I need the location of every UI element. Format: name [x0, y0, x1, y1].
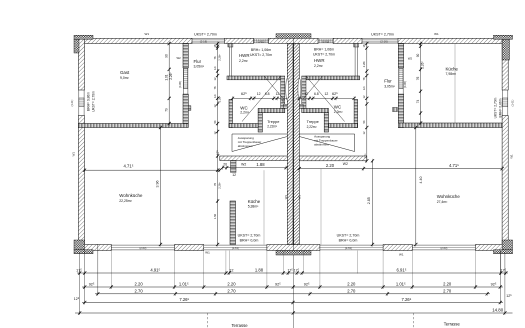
svg-text:2,2m²: 2,2m²: [240, 110, 250, 114]
svg-text:9,0m²: 9,0m²: [120, 76, 130, 80]
svg-text:2.26⁵: 2.26⁵: [421, 61, 425, 69]
svg-text:3,05m²: 3,05m²: [384, 85, 395, 89]
svg-text:76: 76: [416, 77, 420, 81]
svg-text:2.20: 2.20: [135, 281, 144, 286]
svg-text:1.50: 1.50: [213, 213, 217, 219]
svg-text:16: 16: [213, 44, 217, 47]
svg-text:4.71⁵: 4.71⁵: [449, 163, 459, 168]
svg-text:16: 16: [362, 44, 366, 47]
svg-text:17⁵: 17⁵: [287, 268, 293, 272]
svg-text:abstimmen: abstimmen: [314, 143, 329, 147]
svg-text:12: 12: [257, 92, 261, 96]
svg-text:2.26⁵: 2.26⁵: [362, 61, 366, 67]
svg-text:92⁵: 92⁵: [89, 282, 95, 286]
svg-text:1.88: 1.88: [256, 162, 265, 167]
svg-text:12⁵: 12⁵: [74, 297, 80, 301]
svg-text:2,2m²: 2,2m²: [314, 64, 324, 68]
svg-text:5,38m²: 5,38m²: [248, 204, 259, 208]
svg-text:17⁵: 17⁵: [500, 268, 506, 272]
svg-text:12: 12: [232, 173, 236, 177]
svg-text:W2: W2: [408, 57, 413, 61]
svg-text:W2: W2: [176, 56, 181, 60]
svg-text:17⁵: 17⁵: [364, 153, 368, 159]
svg-text:W1: W1: [205, 251, 210, 255]
svg-text:abstimmen: abstimmen: [238, 144, 253, 148]
svg-text:Treppe: Treppe: [267, 119, 279, 124]
svg-text:62⁵: 62⁵: [241, 92, 247, 96]
svg-text:2.20: 2.20: [326, 163, 335, 168]
svg-text:(0-86): (0-86): [403, 81, 407, 88]
svg-text:2,22m²: 2,22m²: [307, 125, 317, 129]
svg-text:92⁵: 92⁵: [275, 282, 281, 286]
svg-text:BRH= 0,0m: BRH= 0,0m: [339, 239, 358, 243]
svg-text:Wohnküche: Wohnküche: [437, 194, 461, 199]
svg-text:12⁵: 12⁵: [281, 99, 285, 103]
svg-text:76: 76: [362, 77, 366, 80]
svg-text:17⁵: 17⁵: [76, 268, 82, 272]
svg-text:1.01⁵: 1.01⁵: [179, 281, 189, 286]
svg-text:2.70: 2.70: [347, 288, 356, 293]
svg-text:(0-86): (0-86): [178, 81, 182, 88]
svg-text:2.85: 2.85: [367, 197, 371, 204]
svg-text:12: 12: [213, 104, 217, 107]
svg-text:2,22m²: 2,22m²: [267, 124, 277, 128]
svg-text:UKST= 2,70m: UKST= 2,70m: [313, 53, 335, 57]
svg-text:12: 12: [362, 131, 366, 134]
svg-text:2.26⁵: 2.26⁵: [218, 96, 222, 102]
svg-text:6.91⁵: 6.91⁵: [397, 267, 407, 272]
svg-text:3.96: 3.96: [155, 181, 159, 188]
svg-text:(2-16): (2-16): [200, 39, 208, 43]
svg-text:74: 74: [416, 100, 420, 104]
svg-text:Gast: Gast: [120, 70, 130, 75]
svg-text:6.8: 6.8: [265, 92, 270, 96]
svg-text:(2-63): (2-63): [345, 246, 352, 250]
svg-text:BRH= 0,86m: BRH= 0,86m: [86, 92, 90, 111]
svg-text:7.26⁵: 7.26⁵: [179, 297, 189, 302]
svg-text:12⁵: 12⁵: [213, 94, 217, 98]
svg-text:90: 90: [416, 54, 420, 58]
svg-text:6.8: 6.8: [314, 92, 319, 96]
svg-text:17⁵: 17⁵: [216, 149, 220, 155]
svg-text:UKST= 2,70m: UKST= 2,70m: [371, 33, 394, 37]
svg-text:Flur: Flur: [194, 59, 202, 64]
svg-text:12: 12: [325, 92, 329, 96]
svg-text:2.20: 2.20: [443, 281, 452, 286]
svg-text:HWR: HWR: [314, 58, 325, 63]
svg-text:Terrasse: Terrasse: [444, 322, 461, 327]
svg-text:90: 90: [164, 54, 168, 58]
svg-text:12: 12: [229, 268, 233, 272]
svg-text:2.20: 2.20: [227, 281, 236, 286]
svg-text:W1: W1: [145, 32, 150, 36]
svg-text:2.26⁵: 2.26⁵: [218, 182, 222, 188]
svg-text:UKST= 2,70m: UKST= 2,70m: [194, 33, 217, 37]
svg-text:1.88: 1.88: [255, 267, 264, 272]
svg-text:W2: W2: [241, 162, 246, 166]
svg-text:Treppe: Treppe: [307, 119, 319, 124]
svg-text:1.01: 1.01: [164, 74, 168, 80]
svg-text:UKST= 2,70m: UKST= 2,70m: [92, 91, 96, 112]
svg-text:W1: W1: [298, 195, 302, 200]
svg-text:W1: W1: [72, 152, 76, 157]
svg-text:22,25m²: 22,25m²: [119, 199, 132, 203]
svg-text:(2-16): (2-16): [380, 39, 388, 43]
svg-text:Küche: Küche: [248, 199, 261, 204]
svg-text:W1: W1: [399, 252, 404, 256]
svg-text:HWR: HWR: [239, 53, 250, 58]
svg-text:2.20: 2.20: [347, 281, 356, 286]
svg-text:UKST= 2,70m: UKST= 2,70m: [493, 97, 497, 118]
svg-text:(2-63): (2-63): [232, 246, 239, 250]
svg-text:UKST= 2,70m: UKST= 2,70m: [238, 233, 261, 237]
svg-text:(2-63): (2-63): [139, 246, 146, 250]
svg-text:76: 76: [213, 56, 217, 59]
svg-text:W1: W1: [509, 154, 513, 159]
svg-text:3,05m²: 3,05m²: [194, 64, 205, 68]
svg-text:17⁵: 17⁵: [294, 268, 300, 272]
svg-text:62⁵: 62⁵: [332, 92, 338, 96]
svg-text:92⁵: 92⁵: [491, 282, 497, 286]
svg-text:79: 79: [164, 108, 168, 112]
svg-text:12: 12: [213, 77, 217, 80]
svg-text:7.26⁵: 7.26⁵: [401, 297, 411, 302]
svg-text:1.01⁵: 1.01⁵: [396, 281, 406, 286]
svg-text:7,98m²: 7,98m²: [446, 72, 457, 76]
svg-text:12: 12: [362, 95, 366, 98]
svg-text:12⁵: 12⁵: [506, 294, 512, 298]
svg-text:12⁵: 12⁵: [362, 86, 366, 90]
svg-text:12: 12: [304, 92, 308, 96]
svg-text:UKST= 2,70m: UKST= 2,70m: [250, 53, 272, 57]
svg-text:4.71⁵: 4.71⁵: [124, 164, 134, 169]
svg-text:Wohnküche: Wohnküche: [119, 193, 143, 198]
svg-text:(1-01): (1-01): [258, 40, 265, 43]
svg-text:BRH= 1,06m: BRH= 1,06m: [314, 47, 334, 51]
svg-text:2,2m²: 2,2m²: [334, 110, 344, 114]
svg-text:12⁵: 12⁵: [213, 66, 217, 70]
svg-text:2,2m²: 2,2m²: [239, 59, 249, 63]
svg-text:2.70: 2.70: [227, 288, 236, 293]
svg-text:(1-01): (1-01): [322, 40, 329, 43]
svg-text:4.40: 4.40: [419, 177, 423, 184]
svg-text:Küche: Küche: [446, 67, 459, 72]
svg-text:76: 76: [213, 86, 217, 89]
svg-text:12: 12: [213, 131, 217, 134]
svg-text:BRH= 0,0m: BRH= 0,0m: [240, 239, 259, 243]
svg-text:92⁵: 92⁵: [304, 282, 310, 286]
svg-text:76: 76: [213, 183, 217, 186]
svg-text:27,4m²: 27,4m²: [437, 200, 448, 204]
svg-text:W1: W1: [434, 32, 439, 36]
svg-text:12: 12: [276, 92, 280, 96]
svg-text:Terrasse: Terrasse: [231, 323, 248, 328]
svg-text:2.70: 2.70: [135, 288, 144, 293]
svg-text:2.26⁵: 2.26⁵: [169, 72, 173, 80]
svg-text:4.91⁵: 4.91⁵: [150, 267, 160, 272]
svg-text:2.26⁵: 2.26⁵: [218, 54, 222, 60]
svg-text:14.80: 14.80: [492, 307, 504, 312]
svg-text:2.70: 2.70: [443, 288, 452, 293]
svg-text:54: 54: [213, 120, 217, 123]
svg-text:54: 54: [362, 120, 366, 123]
svg-text:Flur: Flur: [384, 79, 392, 84]
svg-text:UKST= 2,70m: UKST= 2,70m: [337, 233, 360, 237]
svg-text:BRH= 1,06m: BRH= 1,06m: [251, 48, 271, 52]
svg-text:BRH= 0,86m: BRH= 0,86m: [499, 98, 503, 117]
svg-text:W2: W2: [343, 162, 348, 166]
svg-text:(2-63): (2-63): [440, 246, 447, 250]
svg-text:W1: W1: [284, 195, 288, 200]
svg-text:WC: WC: [334, 105, 341, 110]
svg-text:(1-01): (1-01): [71, 99, 74, 106]
svg-text:(1-01): (1-01): [512, 99, 515, 106]
